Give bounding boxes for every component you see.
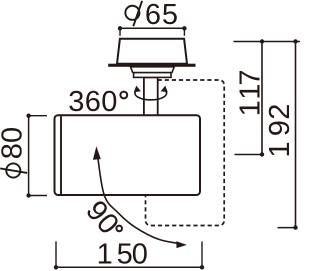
svg-text:150: 150	[97, 238, 148, 270]
svg-text:65: 65	[145, 0, 179, 31]
svg-text:117: 117	[234, 69, 266, 116]
svg-text:192: 192	[264, 104, 296, 158]
svg-text:360: 360	[68, 86, 118, 118]
svg-text:80: 80	[0, 127, 28, 160]
